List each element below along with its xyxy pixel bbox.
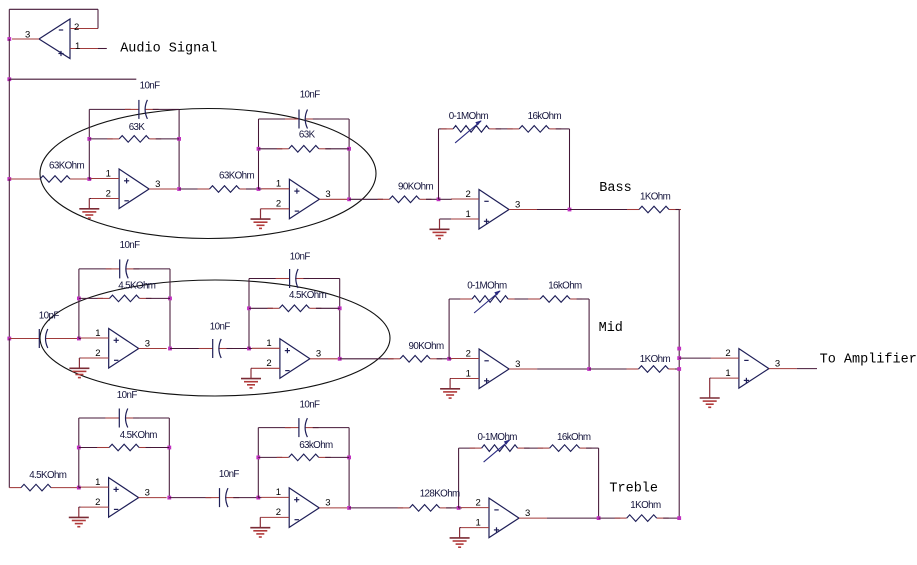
op-amp final summing (711, 348, 797, 388)
wire bass summing output wire (537, 209, 570, 211)
resistor R 4.5KOhm (mid s2 feedback) (267, 305, 321, 312)
wire treble output wire (599, 517, 621, 519)
ground mid stage2 (241, 368, 261, 388)
wire mid coupling wire b (227, 348, 250, 350)
svg-text:Audio Signal: Audio Signal (120, 42, 217, 57)
svg-text:1KOhm: 1KOhm (630, 500, 661, 511)
wire mid s1 loop top b (133, 268, 170, 270)
node treble s1 fb res right (167, 446, 171, 450)
wire treble s2 pin1 wire (258, 497, 261, 499)
wire mid s1 pin2 to gnd (79, 357, 80, 360)
wire mid s2 loop top a (249, 278, 281, 280)
resistor R 16kOhm (mid summing feedback) (528, 296, 582, 303)
wire treble s1 loop top b (133, 417, 169, 419)
svg-text:1: 1 (95, 477, 100, 488)
wire treble s2 fb res wire l (258, 456, 282, 458)
wire bass coupling wire b (246, 188, 259, 190)
resistor R 1KOhm (mid output) (627, 366, 681, 373)
wire bass s1 pin1 wire (89, 178, 91, 180)
wire bass s2 fb res wire l (259, 148, 283, 150)
wire bass s2 loop right (348, 119, 350, 199)
wire bass summing pin2 wire (439, 198, 453, 200)
svg-text:10nF: 10nF (210, 322, 231, 333)
svg-text:1KOhm: 1KOhm (640, 191, 671, 202)
wire mid to summing wire (340, 358, 394, 360)
wire treble summing pin1 to gnd (460, 527, 461, 530)
svg-text:10nF: 10nF (117, 390, 138, 401)
wire treble s1 fb res wire l (79, 447, 103, 449)
op-amp mid stage2 (252, 338, 338, 378)
svg-text:10pF: 10pF (39, 311, 60, 322)
svg-text:63K: 63K (129, 122, 146, 133)
ground bass summing (430, 219, 450, 239)
svg-text:2: 2 (95, 348, 100, 359)
svg-text:1: 1 (725, 368, 730, 379)
wire bass s1 fb res wire l (89, 138, 112, 140)
ground treble stage2 (250, 517, 270, 537)
wire stub from bus at y79 (9, 78, 136, 80)
resistor R 1KOhm (treble output) (615, 515, 669, 522)
node right bus upper (677, 347, 681, 351)
node treble join (677, 516, 681, 520)
wire treble summing pin2 wire (459, 507, 462, 509)
wire bass summing loop top a (439, 128, 447, 130)
wire mid s1 loop left (78, 269, 80, 339)
wire treble s2 loop left (257, 428, 259, 498)
svg-text:128KOhm: 128KOhm (420, 488, 460, 499)
wire treble output wire b (663, 517, 679, 519)
capacitor C 10nF (mid s1 feedback) (106, 259, 140, 278)
wire bass coupling wire a (179, 188, 203, 190)
ground treble stage1 (69, 507, 89, 527)
svg-text:3: 3 (525, 508, 530, 519)
node mid s1 fb res right (168, 297, 172, 301)
wire mid s2 pin1 wire (249, 348, 252, 350)
svg-text:1: 1 (476, 517, 481, 528)
node mid stage1 input node (77, 337, 81, 341)
wire left bus mid (8, 79, 10, 179)
wire treble coupling wire a (169, 497, 211, 499)
svg-text:4.5KOhm: 4.5KOhm (29, 470, 67, 481)
node final pin2 tap (677, 356, 681, 360)
wire treble summing loop left (458, 448, 460, 508)
wire mid s1 fb res wire l (79, 297, 103, 299)
svg-text:2: 2 (466, 348, 471, 359)
wire treble summing loop right (598, 448, 600, 518)
svg-text:10nF: 10nF (219, 469, 240, 480)
wire U1 feedback loop (9, 9, 98, 39)
svg-text:90KOhm: 90KOhm (409, 341, 445, 352)
wire bass s1 loop left (88, 109, 90, 179)
capacitor C 10nF (bass s1 feedback) (125, 100, 159, 119)
op-amp mid summing (451, 348, 537, 388)
wire mid output wire (589, 368, 632, 370)
node treble s2 fb res right (347, 456, 351, 460)
wire mid summing pin1 to gnd (450, 378, 451, 381)
node buffer output on bus (7, 37, 11, 41)
resistor R 90KOhm (bass summing input) (378, 196, 432, 203)
resistor R 63K (bass s2 feedback) (277, 146, 331, 153)
ellipse around bass filter stages (40, 109, 376, 239)
wire treble s1 loop top a (79, 417, 111, 419)
wire mid summing loop top a (449, 298, 466, 300)
wire final pin2 wire (679, 357, 711, 359)
resistor R 63KOhm (bass coupling) (198, 186, 252, 193)
svg-text:2: 2 (725, 348, 730, 359)
wire bass summing loop right (569, 129, 571, 210)
wire treble s1 loop right (168, 418, 170, 498)
wire bass s1 loop top b (153, 108, 179, 110)
wire bass s2 loop top a (259, 118, 291, 120)
resistor R 63KOhm (bass input) (9, 176, 89, 183)
wire mid s2 loop top b (303, 278, 339, 280)
svg-text:0-1MOhm: 0-1MOhm (449, 111, 489, 122)
wire bass s2 loop top b (313, 118, 349, 120)
wire mid s2 fb res wire r (316, 307, 340, 309)
svg-text:63KOhm: 63KOhm (219, 171, 255, 182)
node mid s1 output node (168, 347, 172, 351)
wire mid output wire b (675, 368, 679, 370)
wire treble s1 loop left (78, 418, 80, 488)
svg-text:Treble: Treble (609, 481, 658, 496)
node mid s2 fb res right (338, 306, 342, 310)
svg-text:3: 3 (25, 30, 30, 41)
svg-text:2: 2 (74, 22, 79, 33)
ground final (700, 378, 720, 407)
resistor R 4.5KOhm (mid s1 feedback) (98, 295, 152, 302)
node bass s1 output node (177, 187, 181, 191)
svg-text:10nF: 10nF (120, 240, 141, 251)
op-amp treble stage2 (261, 487, 347, 527)
wire bass s2 pin1 wire (259, 188, 262, 190)
wire mid coupling wire a (170, 348, 205, 350)
resistor R 63K (bass s1 feedback) (107, 136, 161, 143)
wire bass summing loop top c (556, 128, 570, 130)
wire bass s1 fb res wire r (156, 138, 179, 140)
svg-text:4.5KOhm: 4.5KOhm (120, 430, 158, 441)
svg-text:To Amplifier: To Amplifier (820, 353, 917, 368)
svg-text:1: 1 (276, 487, 281, 498)
wire bass s2 pin2 to gnd (260, 208, 263, 210)
svg-text:63KOhm: 63KOhm (49, 161, 85, 172)
wire mid s2 loop right (339, 279, 341, 359)
wire treble s2 loop right (348, 428, 350, 508)
node bass s1 fb res left (87, 137, 91, 141)
svg-text:1: 1 (75, 41, 80, 52)
wire mid s1 loop top a (79, 268, 112, 270)
svg-text:3: 3 (316, 349, 321, 360)
svg-text:2: 2 (266, 358, 271, 369)
svg-text:63K: 63K (299, 130, 316, 141)
node mid join (677, 367, 681, 371)
node bass stage2 input node (257, 187, 261, 191)
ground mid summing (440, 379, 460, 399)
node treble stage2 input node (256, 496, 260, 500)
svg-text:0-1MOhm: 0-1MOhm (478, 432, 518, 443)
svg-text:16kOhm: 16kOhm (548, 281, 582, 292)
wire treble s1 fb res wire r (146, 447, 170, 449)
wire treble summing output wire (547, 517, 599, 519)
svg-text:3: 3 (325, 498, 330, 509)
wire right bus (678, 210, 680, 519)
wire bass summing loop left (438, 129, 440, 199)
node mid stage2 input node (247, 347, 251, 351)
svg-text:1: 1 (95, 328, 100, 339)
wire audio signal input (98, 48, 107, 50)
resistor R 4.5KOhm (treble input) (9, 484, 79, 491)
wire bass s2 loop left (258, 119, 260, 189)
op-amp treble summing (461, 497, 547, 537)
svg-text:3: 3 (325, 189, 330, 200)
node mid s2 output node (338, 357, 342, 361)
resistor R 63kOhm (treble s2 feedback) (277, 454, 331, 461)
wire treble coupling wire b (233, 497, 258, 499)
resistor R 16kOhm (bass summing feedback) (507, 126, 561, 133)
op-amp mid stage1 (81, 328, 167, 368)
node bass s1 fb res right (177, 137, 181, 141)
wire left bus lower (8, 179, 10, 339)
svg-text:2: 2 (466, 189, 471, 200)
wire mid summing loop left (448, 299, 450, 359)
node bass input tap (7, 177, 11, 181)
potentiometer 0-1MOhm (mid gain) (460, 290, 520, 313)
node mid s1 fb res left (77, 297, 81, 301)
wire treble s1 pin1 wire (79, 487, 81, 489)
op-amp bass stage2 (261, 179, 347, 219)
node mid summing node (447, 357, 451, 361)
node bass summing output node (568, 208, 572, 212)
wire bass summing pin1 to gnd (440, 218, 452, 221)
wire mid to summing wire b (437, 358, 450, 360)
svg-text:1: 1 (276, 179, 281, 190)
wire treble s2 fb res wire r (325, 456, 349, 458)
svg-text:1: 1 (266, 338, 271, 349)
wire mid s2 pin2 to gnd (250, 367, 253, 369)
wire mid summing loop top b (515, 298, 534, 300)
svg-text:4.5KOhm: 4.5KOhm (118, 281, 156, 292)
wire bass output wire (570, 209, 633, 211)
node bass summing node (437, 197, 441, 201)
resistor R 16kOhm (treble summing feedback) (538, 445, 592, 452)
node mid s2 fb res left (247, 306, 251, 310)
svg-text:2: 2 (476, 497, 481, 508)
capacitor C 10nF (mid s2 feedback) (276, 269, 310, 288)
svg-text:3: 3 (145, 487, 150, 498)
wire mid summing loop right (588, 299, 590, 369)
op-amp bass summing (451, 189, 537, 229)
svg-text:2: 2 (95, 497, 100, 508)
svg-text:3: 3 (515, 199, 520, 210)
wire treble s2 loop top b (313, 427, 349, 429)
svg-text:10nF: 10nF (300, 400, 321, 411)
node treble s2 fb res left (256, 456, 260, 460)
svg-text:2: 2 (276, 199, 281, 210)
wire treble s1 pin2 to gnd (79, 506, 81, 509)
wire final pin1 to gnd (710, 377, 711, 379)
node treble summing node (457, 506, 461, 510)
node bass s2 fb res left (257, 147, 261, 151)
wire mid s1 pin1 wire (79, 338, 81, 340)
svg-text:3: 3 (145, 338, 150, 349)
node bass s2 fb res right (347, 147, 351, 151)
node bass s2 output node (347, 197, 351, 201)
node mid summing output node (587, 367, 591, 371)
wire bass s1 pin2 to gnd (89, 198, 91, 201)
wire bass s2 fb res wire r (325, 148, 349, 150)
svg-text:2: 2 (106, 188, 111, 199)
capacitor C 10nF (mid coupling) (199, 339, 233, 358)
resistor R 90KOhm (mid summing input) (388, 356, 442, 363)
wire mid s1 fb res wire r (146, 297, 170, 299)
op-amp treble stage1 (81, 477, 167, 517)
wire bass s1 loop top a (89, 108, 130, 110)
svg-text:63kOhm: 63kOhm (299, 440, 333, 451)
node mid input tap (7, 337, 11, 341)
wire mid summing loop top c (577, 298, 590, 300)
wire treble to summing wire b (446, 507, 459, 509)
svg-text:10nF: 10nF (290, 251, 311, 262)
capacitor C 10nF (treble coupling) (206, 488, 240, 507)
resistor R 4.5KOhm (treble s1 feedback) (97, 444, 151, 451)
svg-text:2: 2 (276, 507, 281, 518)
ellipse around mid filter stages (40, 280, 390, 396)
svg-text:3: 3 (775, 358, 780, 369)
svg-text:1: 1 (466, 209, 471, 220)
wire bass summing loop top b (496, 128, 513, 130)
node bass stage1 input node (87, 177, 91, 181)
node treble s1 output node (167, 496, 171, 500)
svg-text:0-1MOhm: 0-1MOhm (467, 281, 507, 292)
node treble s1 fb res left (77, 446, 81, 450)
wire treble summing loop top b (524, 447, 543, 449)
wire bass output wire b (676, 209, 680, 211)
wire mid s2 fb res wire l (249, 307, 273, 309)
wire mid summing pin2 wire (449, 358, 452, 360)
wire mid s1 loop right (169, 269, 171, 349)
svg-text:Mid: Mid (599, 321, 623, 336)
capacitor C 10nF (bass s2 feedback) (285, 110, 319, 129)
wire left bus upper (8, 39, 10, 79)
potentiometer 0-1MOhm (treble gain) (470, 439, 530, 462)
svg-text:3: 3 (515, 359, 520, 370)
ground treble summing (450, 528, 470, 548)
ground bass stage1 (79, 199, 99, 219)
svg-text:3: 3 (155, 179, 160, 190)
wire treble summing loop top a (459, 447, 476, 449)
wire mid s2 loop left (248, 279, 250, 349)
node treble stage1 input node (77, 486, 81, 490)
wire final output wire (797, 368, 817, 370)
wire treble s2 pin2 to gnd (259, 516, 262, 518)
node treble summing output node (597, 516, 601, 520)
op-amp U1 input buffer (12, 19, 98, 59)
svg-text:1: 1 (466, 368, 471, 379)
svg-text:4.5KOhm: 4.5KOhm (289, 290, 327, 301)
svg-text:1KOhm: 1KOhm (640, 354, 671, 365)
capacitor C 10nF (treble s2 feedback) (285, 418, 319, 437)
svg-text:Bass: Bass (599, 181, 631, 196)
svg-text:16kOhm: 16kOhm (528, 111, 562, 122)
svg-text:10nF: 10nF (140, 81, 161, 92)
wire bass to summing wire (349, 198, 383, 200)
node bus tap y79 (7, 77, 11, 81)
ground mid stage1 (69, 358, 89, 378)
wire bass to summing wire b (426, 198, 439, 200)
ground bass stage2 (251, 209, 271, 229)
resistor R 1KOhm (bass output) (627, 206, 681, 213)
svg-text:10nF: 10nF (300, 90, 321, 101)
svg-text:1: 1 (106, 168, 111, 179)
resistor R 128KOhm (treble summing input) (398, 505, 452, 512)
potentiometer 0-1MOhm (bass gain) (441, 120, 501, 143)
wire mid summing output wire (537, 368, 589, 370)
wire left bus bottom (8, 339, 10, 488)
op-amp bass stage1 (91, 168, 177, 208)
svg-text:90KOhm: 90KOhm (398, 182, 434, 193)
node treble s2 output node (347, 506, 351, 510)
capacitor C 10pF (mid input) (9, 329, 79, 348)
wire treble s2 loop top a (258, 427, 290, 429)
capacitor C 10nF (treble s1 feedback) (105, 409, 139, 428)
wire treble summing loop top c (586, 447, 599, 449)
svg-text:16kOhm: 16kOhm (557, 432, 591, 443)
wire bass s1 loop right (178, 109, 180, 189)
wire treble to summing wire (349, 507, 403, 509)
